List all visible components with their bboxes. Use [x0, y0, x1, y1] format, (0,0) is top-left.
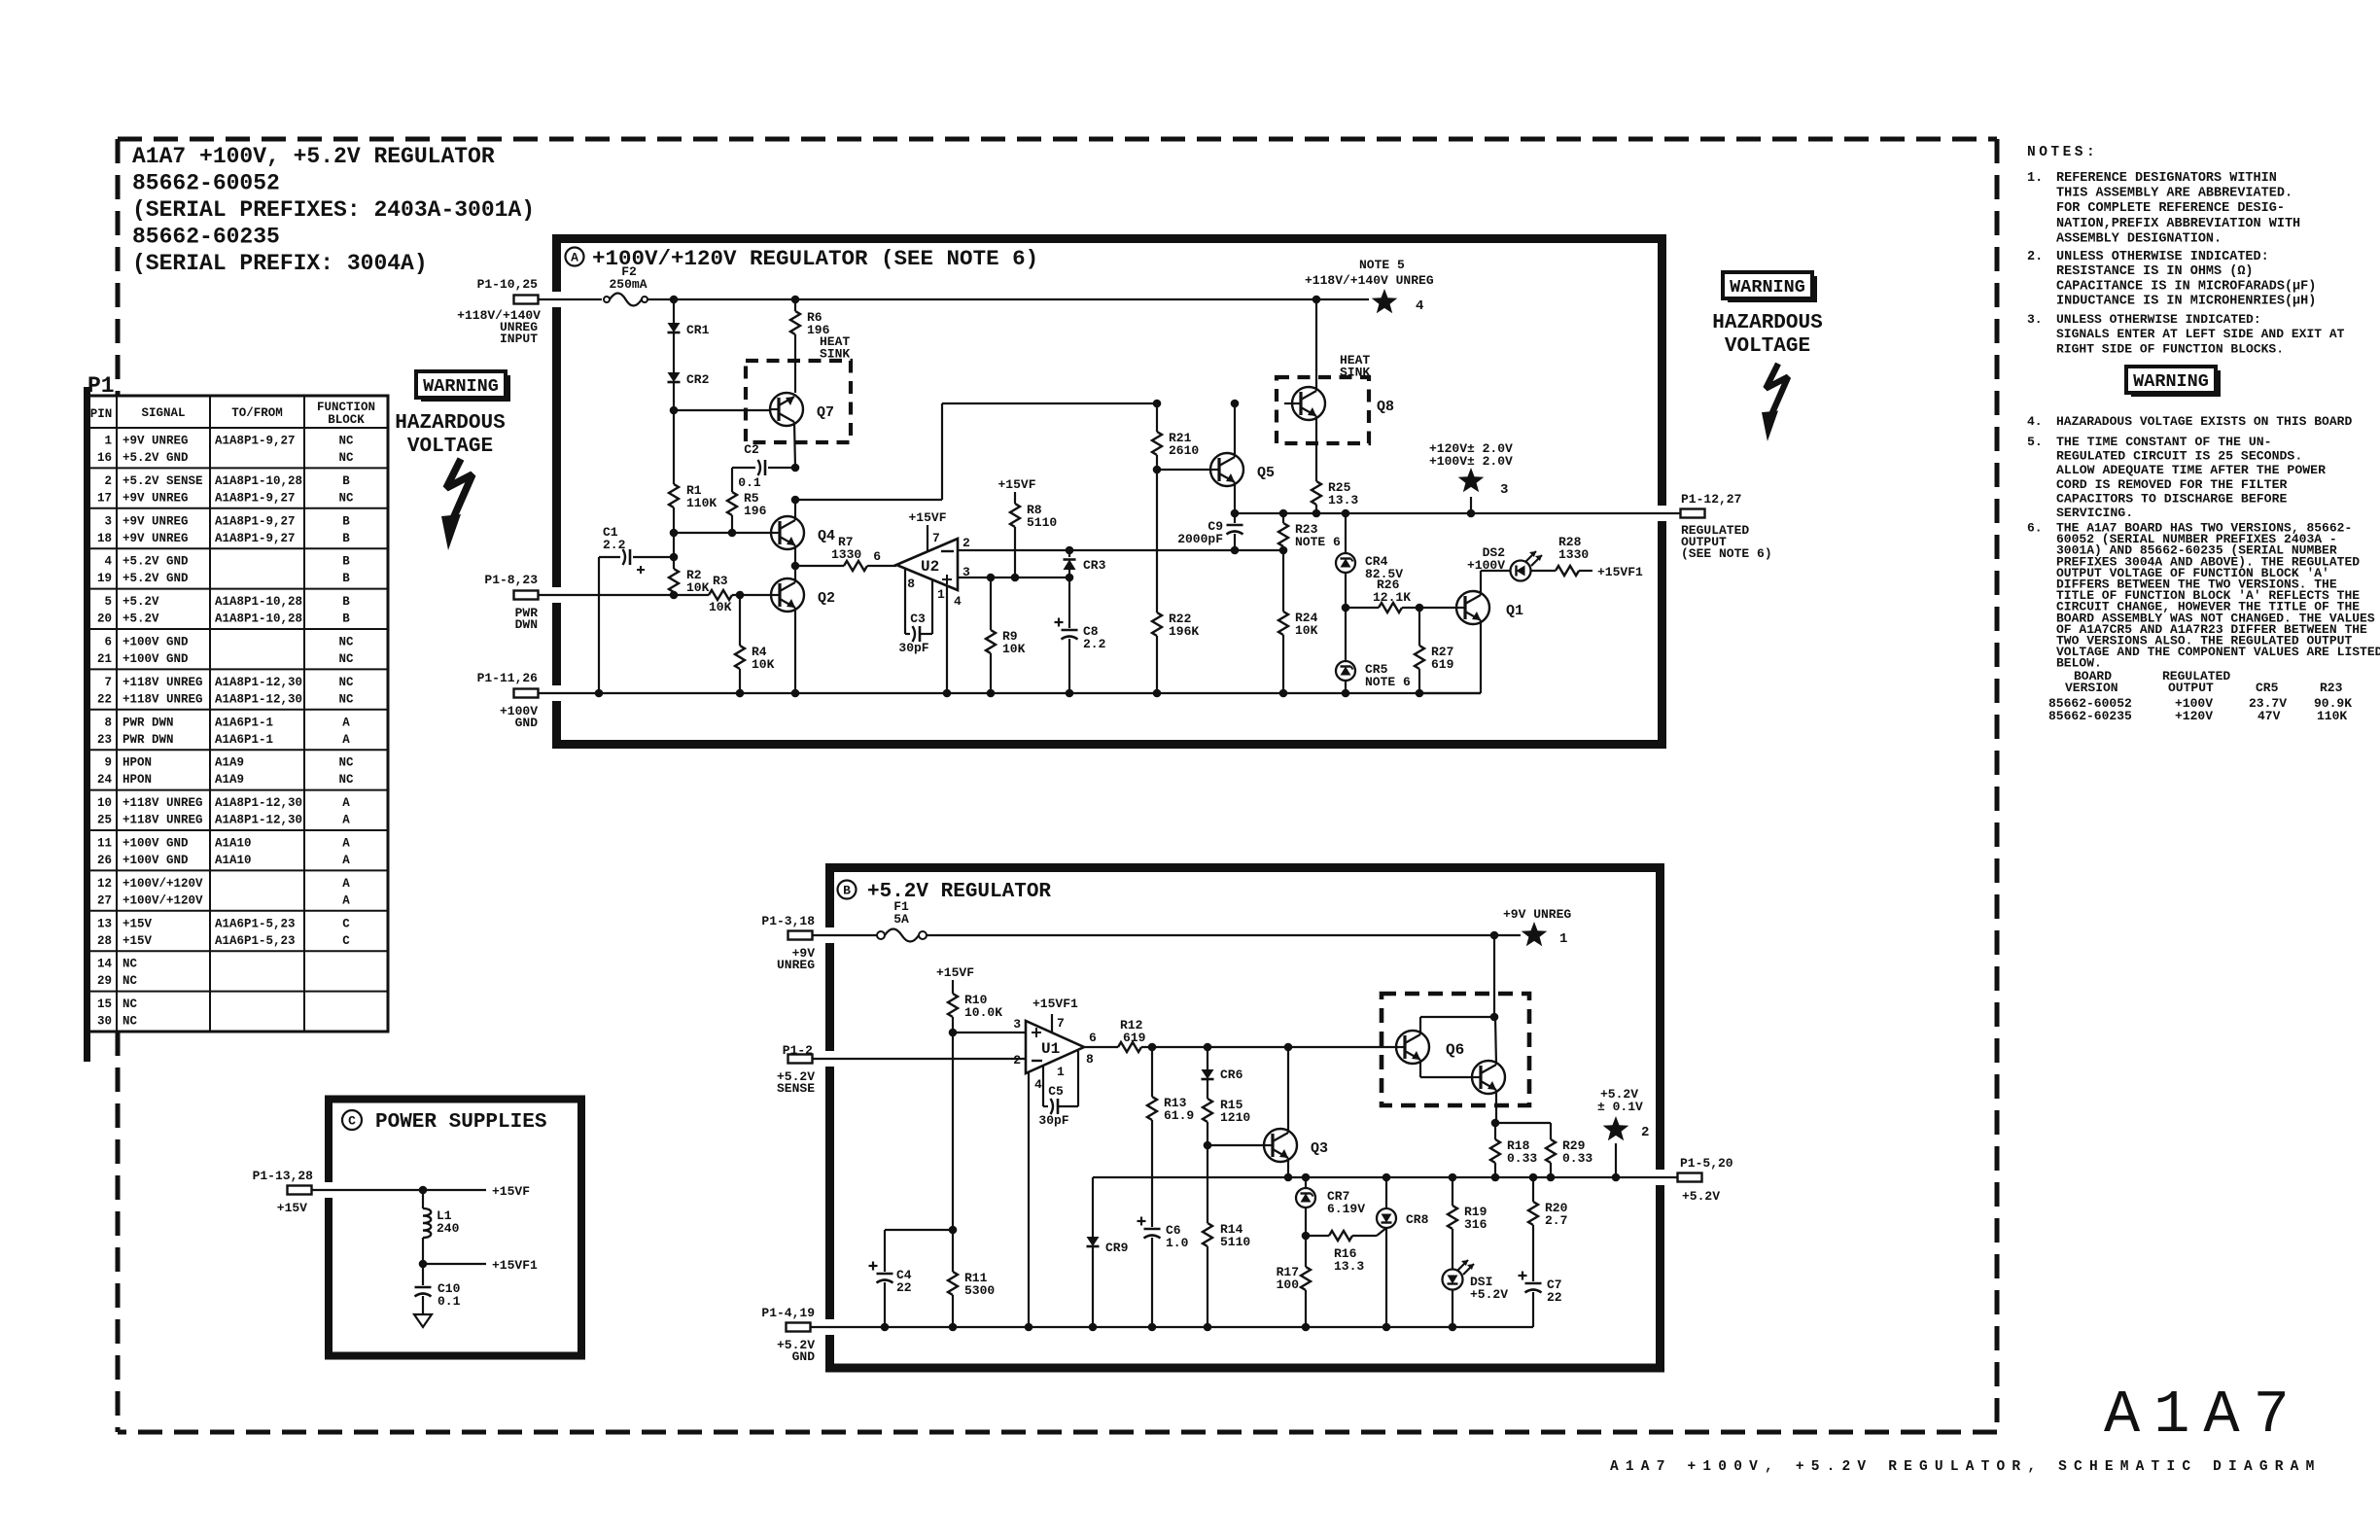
svg-text:6: 6: [873, 549, 881, 564]
svg-text:A: A: [342, 854, 350, 867]
wire CR2 to node: [673, 382, 675, 410]
svg-text:A: A: [342, 837, 350, 851]
resistor R7: [831, 535, 896, 571]
node out R25: [1312, 509, 1321, 518]
svg-text:B: B: [342, 532, 350, 545]
node gnd B DS1: [1449, 1323, 1457, 1332]
svg-text:14: 14: [97, 958, 113, 971]
resistor R15: [1203, 1079, 1250, 1145]
node top rail at R6: [791, 296, 800, 304]
wire R4 to gnd rail: [739, 669, 741, 693]
svg-text:+5.2V SENSE: +5.2V SENSE: [122, 474, 203, 488]
connector pad P1-11,26: [477, 671, 539, 730]
svg-text:22: 22: [97, 692, 112, 706]
svg-text:A1A7: A1A7: [2104, 1381, 2303, 1450]
connector pad P1-4,19: [761, 1306, 815, 1364]
svg-text:A1A10: A1A10: [215, 854, 252, 867]
svg-text:NOTE 6: NOTE 6: [1295, 535, 1341, 549]
led DS2: [1467, 545, 1542, 581]
svg-text:P1-11,26: P1-11,26: [477, 671, 539, 685]
svg-text:20: 20: [97, 612, 112, 626]
svg-text:26: 26: [97, 854, 112, 867]
svg-text:NC: NC: [338, 756, 354, 770]
svg-text:12.1K: 12.1K: [1373, 590, 1411, 605]
fuse F1: [877, 899, 927, 942]
svg-text:C: C: [348, 1114, 356, 1129]
node R27 top: [1416, 604, 1424, 612]
svg-text:A1A6P1-1: A1A6P1-1: [215, 716, 273, 729]
warning box notes: [2126, 367, 2221, 397]
svg-text:5A: 5A: [893, 912, 909, 927]
svg-text:22: 22: [896, 1280, 912, 1295]
svg-text:+15V: +15V: [277, 1201, 307, 1215]
svg-text:3: 3: [1500, 482, 1508, 498]
svg-text:A1A8P1-10,28: A1A8P1-10,28: [215, 474, 302, 488]
resistor R19: [1448, 1177, 1487, 1270]
svg-text:29: 29: [97, 974, 112, 988]
svg-text:+100V/+120V: +100V/+120V: [122, 893, 203, 907]
svg-text:13.3: 13.3: [1328, 493, 1358, 507]
resistor R29: [1495, 1123, 1592, 1177]
svg-text:GND: GND: [515, 716, 539, 730]
node C2 junction: [791, 464, 800, 472]
resistor R16: [1306, 1228, 1386, 1274]
U2 +15VF supply: [908, 510, 946, 525]
svg-text:THIS ASSEMBLY ARE ABBREVIATED.: THIS ASSEMBLY ARE ABBREVIATED.: [2056, 187, 2292, 201]
node +5.2V rail R20: [1529, 1173, 1538, 1182]
svg-text:P1-5,20: P1-5,20: [1680, 1156, 1733, 1171]
svg-text:CR1: CR1: [686, 323, 710, 337]
svg-text:4: 4: [1034, 1077, 1042, 1092]
svg-text:+15VF1: +15VF1: [1597, 565, 1643, 579]
star flag 3: [1429, 441, 1513, 513]
svg-text:B: B: [342, 572, 350, 585]
svg-text:2: 2: [962, 536, 970, 550]
wire pad to fuse F2: [538, 298, 602, 300]
svg-text:Q6: Q6: [1446, 1041, 1464, 1059]
svg-text:Q8: Q8: [1377, 399, 1394, 415]
svg-text:30: 30: [97, 1015, 112, 1029]
connector pad P1-2: [777, 1043, 815, 1096]
svg-text:CR9: CR9: [1105, 1241, 1129, 1255]
node +5.2V rail CR8: [1382, 1173, 1391, 1182]
svg-text:U1: U1: [1041, 1040, 1060, 1058]
wire PWR DWN: [538, 594, 674, 596]
svg-text:NC: NC: [338, 692, 354, 706]
wire R2 to PWR DWN: [673, 592, 675, 595]
wire R21 R22: [1156, 470, 1158, 612]
resistor R5: [727, 491, 767, 533]
svg-text:250mA: 250mA: [609, 277, 647, 292]
wire Q3 emitter: [1287, 1158, 1289, 1177]
node C4 join: [949, 1226, 958, 1235]
svg-text:27: 27: [97, 893, 112, 907]
node +5.2V rail CR7: [1302, 1173, 1311, 1182]
svg-text:A1A8P1-9,27: A1A8P1-9,27: [215, 491, 296, 505]
heat sink box Q7: [746, 334, 851, 442]
wire DS2 R28: [1531, 570, 1556, 572]
svg-text:196: 196: [744, 504, 767, 518]
wire Q6b collector: [1495, 1017, 1496, 1065]
wire Q7 emitter: [794, 422, 795, 468]
svg-text:VOLTAGE: VOLTAGE: [1725, 335, 1810, 358]
svg-text:NC: NC: [338, 773, 354, 787]
diode CR6: [1202, 1047, 1243, 1082]
svg-text:HAZARADOUS VOLTAGE EXISTS ON T: HAZARADOUS VOLTAGE EXISTS ON THIS BOARD: [2056, 414, 2352, 429]
svg-text:+100V/+120V: +100V/+120V: [122, 877, 203, 891]
svg-text:8: 8: [907, 577, 915, 591]
node plus CR3: [1066, 574, 1074, 582]
svg-text:WARNING: WARNING: [2133, 371, 2209, 392]
svg-text:OUTPUT: OUTPUT: [2168, 681, 2214, 695]
svg-text:1330: 1330: [831, 547, 861, 562]
svg-text:+9V UNREG: +9V UNREG: [122, 491, 189, 505]
svg-text:WARNING: WARNING: [1730, 277, 1805, 297]
node +5.2V rail star2: [1612, 1173, 1621, 1182]
svg-text:UNLESS OTHERWISE INDICATED:: UNLESS OTHERWISE INDICATED:: [2056, 312, 2261, 327]
node feedforward R21: [1153, 400, 1162, 408]
svg-text:10K: 10K: [752, 657, 775, 672]
svg-text:A: A: [571, 251, 578, 265]
svg-text:NC: NC: [338, 435, 354, 448]
svg-text:A1A8P1-12,30: A1A8P1-12,30: [215, 692, 302, 706]
svg-text:0.1: 0.1: [738, 475, 761, 490]
svg-text:15: 15: [97, 997, 112, 1011]
svg-text:NC: NC: [122, 958, 138, 971]
svg-text:B: B: [342, 595, 350, 609]
schematic caption: [1610, 1459, 2321, 1475]
block A title: [566, 246, 1039, 271]
svg-text:+100V: +100V: [1467, 558, 1505, 573]
node +5.2V rail R19: [1449, 1173, 1457, 1182]
svg-text:A1A6P1-5,23: A1A6P1-5,23: [215, 934, 296, 948]
svg-text:REFERENCE DESIGNATORS WITHIN: REFERENCE DESIGNATORS WITHIN: [2056, 171, 2277, 186]
transistor Q1: [1456, 591, 1523, 624]
op-amp U2: [873, 525, 970, 609]
svg-text:28: 28: [97, 934, 112, 948]
svg-text:P1-13,28: P1-13,28: [253, 1169, 314, 1183]
svg-text:NC: NC: [122, 974, 138, 988]
note 6: [2027, 521, 2380, 671]
wire Q4 emitter: [794, 545, 796, 566]
svg-text:A: A: [342, 796, 350, 810]
svg-text:30pF: 30pF: [898, 641, 928, 655]
svg-text:SIGNAL: SIGNAL: [141, 406, 185, 420]
svg-text:RIGHT SIDE OF FUNCTION BLOCKS.: RIGHT SIDE OF FUNCTION BLOCKS.: [2056, 341, 2284, 356]
capacitor C6: [1137, 1217, 1189, 1328]
svg-text:INDUCTANCE IS IN MICROHENRIES(: INDUCTANCE IS IN MICROHENRIES(µH): [2056, 295, 2316, 309]
svg-text:+5.2V GND: +5.2V GND: [122, 555, 189, 569]
wire Q1 emitter: [1419, 620, 1481, 693]
node Q3 base: [1204, 1141, 1212, 1150]
diode CR2: [668, 372, 710, 387]
svg-text:SINK: SINK: [820, 347, 850, 362]
svg-text:PIN: PIN: [90, 407, 113, 421]
svg-text:196K: 196K: [1169, 624, 1199, 639]
connector pad P1-3,18: [761, 914, 815, 972]
resistor R25: [1312, 480, 1358, 513]
resistor R11: [948, 1230, 995, 1327]
ground symbol: [414, 1314, 432, 1327]
svg-text:ASSEMBLY DESIGNATION.: ASSEMBLY DESIGNATION.: [2056, 231, 2222, 246]
svg-text:7: 7: [104, 676, 112, 689]
svg-text:5110: 5110: [1220, 1235, 1250, 1249]
svg-text:2: 2: [104, 474, 112, 488]
note 5: [2027, 435, 2326, 520]
resistor R28: [1556, 535, 1592, 576]
node Q6 collector: [1490, 1013, 1499, 1022]
resistor R12: [1118, 1018, 1396, 1052]
svg-text:NOTE 6: NOTE 6: [1365, 675, 1411, 689]
svg-text:B: B: [342, 612, 350, 626]
svg-text:NC: NC: [338, 652, 354, 666]
svg-text:A1A8P1-12,30: A1A8P1-12,30: [215, 796, 302, 810]
capacitor C9: [1177, 513, 1242, 550]
svg-text:U2: U2: [921, 558, 939, 576]
wire U1 minus: [812, 1058, 1026, 1060]
svg-text:0.33: 0.33: [1507, 1151, 1537, 1166]
warning box right: [1723, 272, 1817, 302]
sheet dashed border: [118, 139, 1997, 1432]
svg-text:A1A8P1-10,28: A1A8P1-10,28: [215, 595, 302, 609]
svg-text:3.: 3.: [2027, 312, 2043, 327]
wire Q5 base: [1157, 469, 1210, 471]
svg-text:+15VF: +15VF: [997, 477, 1035, 492]
wire U2 plus line: [958, 577, 1069, 578]
resistor R3: [709, 574, 732, 614]
note 5 label: [1305, 258, 1434, 288]
capacitor C7: [1519, 1272, 1562, 1328]
svg-text:A1A8P1-10,28: A1A8P1-10,28: [215, 612, 302, 626]
svg-text:NC: NC: [338, 636, 354, 649]
warning box left: [416, 371, 510, 402]
node gnd B U1p4: [1025, 1323, 1033, 1332]
svg-text:Q7: Q7: [817, 404, 834, 421]
svg-text:+118V/+140V UNREG: +118V/+140V UNREG: [1305, 273, 1434, 288]
connector pad P1-10,25: [457, 277, 541, 346]
svg-text:Q2: Q2: [818, 590, 835, 607]
node top rail at CR1: [670, 296, 679, 304]
wire node to C1 node: [673, 533, 675, 557]
capacitor C5: [1038, 1051, 1078, 1128]
node Q7 base: [670, 406, 679, 415]
svg-text:R3: R3: [713, 574, 728, 588]
wire +15V in: [311, 1189, 486, 1191]
svg-text:5.: 5.: [2027, 435, 2043, 449]
wire pad to F1: [812, 934, 877, 936]
diode CR3: [1064, 550, 1106, 577]
svg-text:2: 2: [1641, 1125, 1649, 1140]
hazardous voltage text left: [395, 412, 505, 458]
svg-text:+120V: +120V: [2175, 709, 2213, 723]
svg-text:11: 11: [97, 837, 112, 851]
resistor R21: [1152, 431, 1199, 470]
resistor R27: [1415, 608, 1454, 693]
node gnd rail R9: [987, 689, 996, 698]
function block B box: [823, 868, 1666, 1369]
svg-text:5: 5: [104, 595, 112, 609]
wire base net: [1156, 403, 1158, 432]
svg-text:6.19V: 6.19V: [1327, 1202, 1365, 1216]
wire Q6b emitter: [1495, 1090, 1497, 1123]
svg-text:7: 7: [1057, 1016, 1065, 1031]
node R5 bottom: [728, 529, 737, 538]
svg-text:CAPACITORS TO DISCHARGE BEFORE: CAPACITORS TO DISCHARGE BEFORE: [2056, 491, 2287, 506]
svg-text:+9V UNREG: +9V UNREG: [122, 532, 189, 545]
svg-text:HAZARDOUS: HAZARDOUS: [395, 412, 505, 435]
diode CR9: [1087, 1177, 1129, 1327]
svg-text:+118V UNREG: +118V UNREG: [122, 676, 203, 689]
node gnd B R11: [949, 1323, 958, 1332]
svg-text:A: A: [342, 893, 350, 907]
node gnd B C6: [1148, 1323, 1157, 1332]
transistor Q4: [771, 516, 835, 549]
svg-text:10K: 10K: [686, 580, 710, 595]
zener CR7: [1296, 1177, 1365, 1236]
node CR7 R16: [1302, 1232, 1311, 1241]
svg-text:13: 13: [97, 917, 112, 930]
node out CR4: [1342, 509, 1350, 518]
node feedforward Q5c: [1231, 400, 1240, 408]
hazardous voltage text right: [1712, 312, 1822, 358]
svg-text:2.2: 2.2: [1083, 637, 1106, 651]
svg-text:A1A8P1-9,27: A1A8P1-9,27: [215, 514, 296, 528]
svg-text:316: 316: [1464, 1217, 1487, 1232]
svg-text:3: 3: [1013, 1017, 1021, 1032]
label +15VF1 C: [492, 1258, 538, 1273]
resistor R22: [1152, 612, 1199, 693]
svg-text:UNLESS OTHERWISE INDICATED:: UNLESS OTHERWISE INDICATED:: [2056, 250, 2269, 264]
svg-text:1: 1: [104, 435, 112, 448]
svg-text:10: 10: [97, 796, 112, 810]
node C10 top: [419, 1260, 428, 1269]
svg-text:2: 2: [1013, 1053, 1021, 1067]
lightning bolt left: [441, 459, 472, 550]
svg-text:+9V UNREG: +9V UNREG: [122, 514, 189, 528]
U1 +15VF1 supply: [1032, 997, 1078, 1011]
svg-text:13.3: 13.3: [1334, 1259, 1364, 1274]
svg-text:NOTES:: NOTES:: [2027, 145, 2098, 160]
lightning bolt right: [1762, 364, 1788, 441]
capacitor C4: [869, 1230, 954, 1327]
svg-text:19: 19: [97, 572, 112, 585]
svg-text:+100V/+120V REGULATOR (SEE NOT: +100V/+120V REGULATOR (SEE NOTE 6): [592, 246, 1038, 271]
svg-text:8: 8: [1086, 1052, 1094, 1067]
P1 connector table: [86, 396, 388, 1032]
svg-text:C2: C2: [744, 442, 759, 457]
svg-text:VOLTAGE AND THE COMPONENT VALU: VOLTAGE AND THE COMPONENT VALUES ARE LIS…: [2056, 645, 2380, 659]
svg-text:GND: GND: [792, 1349, 816, 1364]
svg-text:+100V GND: +100V GND: [122, 636, 189, 649]
resistor R23: [1278, 513, 1341, 550]
svg-text:CORD IS REMOVED FOR THE FILTER: CORD IS REMOVED FOR THE FILTER: [2056, 477, 2287, 492]
svg-text:+100V GND: +100V GND: [122, 652, 189, 666]
node gnd rail U2p4: [943, 689, 952, 698]
svg-text:21: 21: [97, 652, 112, 666]
node U1 plus: [949, 1029, 958, 1037]
svg-text:85662-60235: 85662-60235: [132, 225, 280, 250]
node R4 top: [736, 591, 745, 600]
svg-text:+15VF: +15VF: [492, 1184, 530, 1199]
node out CR6: [1204, 1043, 1212, 1052]
capacitor C8: [1055, 577, 1106, 693]
svg-text:A1A8P1-9,27: A1A8P1-9,27: [215, 435, 296, 448]
svg-text:DWN: DWN: [515, 617, 538, 632]
node +5.2V rail R29: [1547, 1173, 1556, 1182]
svg-text:± 0.1V: ± 0.1V: [1597, 1100, 1643, 1114]
svg-text:4: 4: [954, 594, 962, 609]
svg-text:BLOCK: BLOCK: [328, 413, 365, 427]
resistor R2: [669, 568, 710, 595]
svg-text:(SERIAL PREFIX: 3004A): (SERIAL PREFIX: 3004A): [132, 251, 428, 276]
wire U1 out: [1084, 1046, 1118, 1048]
notes 1-3: [2027, 145, 2345, 356]
svg-text:6: 6: [104, 636, 112, 649]
wire top rail A: [647, 298, 1369, 300]
node gnd rail C8: [1066, 689, 1074, 698]
capacitor C2: [732, 442, 795, 492]
svg-text:47V: 47V: [2257, 709, 2281, 723]
node rail Q6: [1490, 931, 1499, 940]
svg-text:2.7: 2.7: [1545, 1213, 1567, 1228]
svg-text:+100V GND: +100V GND: [122, 854, 189, 867]
svg-text:A1A8P1-9,27: A1A8P1-9,27: [215, 532, 296, 545]
svg-text:18: 18: [97, 532, 112, 545]
svg-text:3: 3: [104, 514, 112, 528]
svg-text:PWR DWN: PWR DWN: [122, 716, 174, 729]
svg-text:+5.2V: +5.2V: [1470, 1287, 1508, 1302]
svg-text:1: 1: [1559, 931, 1567, 947]
svg-text:2.2: 2.2: [603, 538, 626, 552]
svg-text:+15V: +15V: [122, 917, 153, 930]
resistor R18: [1490, 1123, 1537, 1177]
big A1A7 label: [2104, 1381, 2303, 1450]
transistor Q5: [1210, 453, 1275, 486]
svg-text:P1-3,18: P1-3,18: [761, 914, 815, 928]
svg-text:1: 1: [1057, 1065, 1065, 1079]
node L1 top: [419, 1186, 428, 1195]
svg-text:NC: NC: [338, 676, 354, 689]
wire Q5 emitter: [1234, 482, 1236, 513]
svg-text:A1A10: A1A10: [215, 837, 252, 851]
svg-text:P1-12,27: P1-12,27: [1681, 492, 1741, 507]
svg-text:WARNING: WARNING: [423, 376, 499, 397]
svg-text:P1-8,23: P1-8,23: [484, 573, 538, 587]
resistor R4: [735, 645, 775, 672]
wire +15VF1 out: [423, 1263, 486, 1265]
svg-text:A: A: [342, 877, 350, 891]
svg-text:UNREG: UNREG: [777, 958, 815, 972]
svg-text:P1-10,25: P1-10,25: [477, 277, 539, 292]
resistor R8: [1010, 503, 1057, 577]
svg-text:R23: R23: [2320, 681, 2343, 695]
resistor R9: [986, 577, 1026, 693]
node C1: [670, 553, 679, 562]
svg-text:1: 1: [937, 587, 945, 602]
R8 +15VF supply: [997, 477, 1035, 504]
svg-text:NC: NC: [122, 1015, 138, 1029]
wire feedforward Z: [795, 403, 1157, 500]
connector pad P1-13,28: [253, 1169, 314, 1215]
transistor Q7: [770, 393, 834, 426]
function block A box: [550, 239, 1668, 745]
svg-text:0.1: 0.1: [437, 1294, 461, 1309]
darlington box Q6: [1382, 994, 1529, 1105]
transistor Q8: [1292, 387, 1394, 420]
wire Q5 collector: [1234, 403, 1236, 457]
svg-text:SERVICING.: SERVICING.: [2056, 506, 2133, 520]
svg-text:B: B: [342, 474, 350, 488]
